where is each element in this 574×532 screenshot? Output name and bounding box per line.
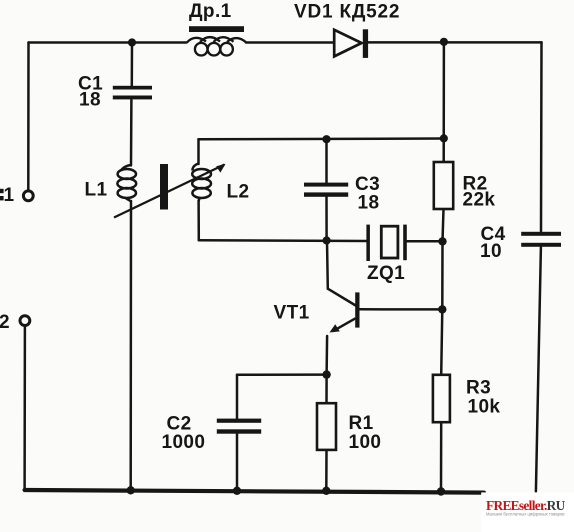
wire top rail left segment bbox=[29, 41, 187, 44]
wire inner top rail bbox=[199, 137, 444, 140]
junction node inner top rail / C3 bbox=[322, 135, 330, 143]
wire left vertical (terminal 2 to bottom rail) bbox=[23, 326, 26, 489]
wire crystal right lead bbox=[407, 240, 443, 243]
crystal ZQ1 right plate bbox=[403, 225, 407, 261]
core bar between L1 and L2 bbox=[160, 164, 168, 210]
wire L2 top lead bbox=[197, 139, 200, 164]
terminal 2 bbox=[20, 316, 30, 326]
junction node base / R3 top bbox=[438, 305, 446, 313]
transistor VT1 emitter lead bbox=[334, 318, 356, 331]
inductor L1 bbox=[117, 165, 136, 201]
variable coupling arrow bbox=[114, 165, 225, 218]
capacitor C4 bbox=[521, 232, 561, 247]
svg-text:1: 1 bbox=[4, 185, 15, 206]
watermark logo box bbox=[481, 492, 574, 532]
junction node inner bottom rail / C3 / collector bbox=[323, 236, 331, 244]
wire collector branch bbox=[326, 241, 329, 289]
resistor R3 bbox=[433, 375, 450, 422]
svg-text:18: 18 bbox=[358, 193, 380, 214]
wire R1 branch lower bbox=[325, 450, 328, 491]
wire base node to R3 bbox=[441, 309, 442, 375]
junction node bottom rail / R3 bbox=[437, 487, 445, 495]
crystal ZQ1 body bbox=[381, 226, 398, 258]
junction node bottom rail / L1 bbox=[127, 486, 135, 494]
transistor VT1 collector lead bbox=[328, 289, 357, 306]
wire L2 bottom lead bbox=[197, 201, 200, 241]
svg-text:22k: 22k bbox=[463, 190, 496, 211]
wire R2 bottom to crystal node bbox=[443, 209, 444, 241]
transistor VT1 emitter arrow bbox=[330, 324, 340, 332]
wire base lead bbox=[360, 308, 443, 311]
wire right vertical upper (top corner to C4) bbox=[540, 42, 543, 231]
arrowhead of coupling arrow bbox=[216, 164, 225, 173]
terminal 1 bbox=[23, 191, 33, 201]
wire emitter vertical bbox=[325, 336, 328, 375]
wire top rail right segment (diode to corner) bbox=[368, 41, 542, 44]
svg-text:10k: 10k bbox=[468, 397, 501, 418]
svg-text:ZQ1: ZQ1 bbox=[367, 263, 405, 284]
junction node inner top rail / R2 branch bbox=[440, 134, 448, 142]
wire L1 to bottom rail bbox=[129, 201, 132, 489]
transistor VT1 base bar bbox=[355, 292, 359, 327]
capacitor C1 bbox=[113, 86, 152, 100]
wire C2 branch lower bbox=[236, 434, 239, 491]
diode VD1 bbox=[334, 30, 361, 57]
capacitor C2 bbox=[217, 419, 261, 434]
crystal ZQ1 left plate bbox=[366, 225, 370, 261]
wire C1 to L1 bbox=[130, 100, 133, 166]
wire C2 branch upper bbox=[236, 375, 239, 419]
junction node bottom rail / R1 bbox=[322, 487, 330, 495]
wire emitter rail to C2 bbox=[237, 373, 327, 376]
wire C1 branch upper bbox=[131, 43, 134, 86]
junction node crystal / R2 bottom bbox=[438, 237, 446, 245]
svg-text:10: 10 bbox=[480, 241, 502, 262]
svg-text:Др.1: Др.1 bbox=[189, 1, 232, 22]
junction node emitter / C2 / R1 bbox=[322, 370, 330, 378]
wire inner bottom rail (L2 to crystal) bbox=[199, 239, 367, 242]
svg-text:VD1 КД522: VD1 КД522 bbox=[294, 2, 400, 23]
wire C3 branch lower bbox=[325, 197, 328, 241]
svg-text:18: 18 bbox=[79, 90, 101, 111]
junction node top rail / R2 branch bbox=[440, 38, 448, 46]
svg-text:L1: L1 bbox=[85, 180, 108, 201]
resistor R1 bbox=[317, 403, 336, 450]
svg-text:1000: 1000 bbox=[162, 432, 206, 453]
svg-text:2: 2 bbox=[0, 312, 10, 333]
wire right vertical lower (C4 to bottom) bbox=[536, 247, 541, 491]
wire bottom rail bbox=[25, 490, 484, 493]
svg-text:VT1: VT1 bbox=[274, 303, 310, 324]
wire top rail mid segment (choke to diode) bbox=[246, 41, 335, 44]
wire C3 branch upper bbox=[325, 139, 328, 182]
resistor R2 bbox=[434, 162, 453, 209]
choke Dr.1 winding bbox=[187, 37, 247, 55]
clipped character fragment at left edge bbox=[0, 189, 4, 193]
capacitor C3 bbox=[304, 183, 348, 197]
wire R2 branch top (top rail to R2) bbox=[442, 42, 445, 162]
junction node bottom rail / C2 bbox=[233, 487, 241, 495]
svg-text:R1: R1 bbox=[349, 413, 374, 434]
wire left vertical (top rail to terminal 1) bbox=[27, 43, 30, 191]
choke Dr.1 core bar bbox=[189, 26, 244, 32]
diode VD1 cathode bar bbox=[363, 29, 368, 58]
wire R1 branch upper bbox=[325, 375, 328, 404]
svg-text:100: 100 bbox=[349, 432, 382, 453]
svg-text:L2: L2 bbox=[227, 182, 250, 203]
wire R3 to bottom rail bbox=[440, 422, 443, 491]
inductor L2 bbox=[192, 164, 211, 202]
svg-text:Магазин бесплатных цифровых то: Магазин бесплатных цифровых товаров bbox=[486, 512, 565, 517]
svg-text:R3: R3 bbox=[466, 377, 491, 398]
junction node top rail / C1 bbox=[128, 38, 136, 46]
wire crystal node to base node bbox=[441, 241, 444, 309]
